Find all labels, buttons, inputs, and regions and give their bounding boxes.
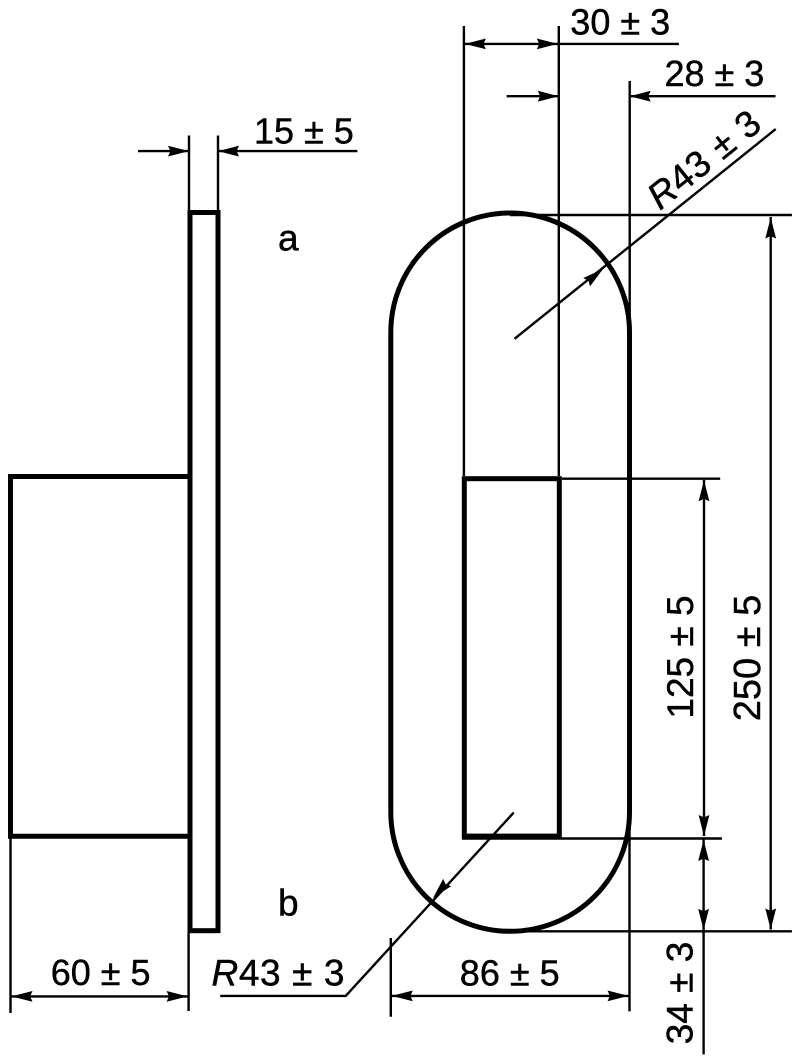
dimension 60±5 extension lines	[11, 838, 189, 1013]
dimension text 125±5 (rotated)	[660, 595, 701, 718]
dimension 86±5 extension lines	[391, 812, 630, 1017]
svg-text:60 ± 5: 60 ± 5	[51, 952, 151, 993]
dimension 15±5 dim line with outside arrows	[138, 150, 357, 152]
dimension 250±5 dim line	[770, 217, 772, 930]
dimension 250±5 extension lines	[510, 215, 792, 931]
dimension 34±3 dim line	[702, 840, 704, 1055]
svg-text:86 ± 5: 86 ± 5	[460, 953, 560, 994]
block (base, side view)	[11, 477, 191, 837]
dimension 28±3 dim line with outside arrows	[507, 95, 776, 97]
svg-text:250 ± 5: 250 ± 5	[727, 595, 769, 722]
dimension text 34±3 (rotated)	[660, 942, 701, 1045]
svg-text:R43 ± 3: R43 ± 3	[212, 953, 346, 994]
dimension 30±3 dim line	[464, 43, 679, 45]
stadium outline	[391, 213, 630, 931]
inner rectangle	[464, 479, 559, 836]
svg-text:b: b	[278, 883, 299, 924]
dimension 30±3 extension lines	[464, 26, 559, 476]
radius leader R43 top	[515, 129, 776, 339]
dimension 28±3 extension line	[629, 81, 631, 330]
dimension text 250±5 (rotated)	[727, 595, 769, 722]
radius leader R43 bottom	[220, 813, 514, 996]
dimension 60±5 dim line	[11, 995, 189, 997]
plate (side view, thin vertical)	[190, 213, 218, 931]
svg-text:34 ± 3: 34 ± 3	[660, 942, 701, 1045]
svg-text:125 ± 5: 125 ± 5	[660, 595, 701, 718]
svg-text:28 ± 3: 28 ± 3	[665, 53, 765, 94]
dimension 15±5 extension lines	[189, 136, 218, 212]
svg-text:a: a	[278, 218, 299, 259]
svg-text:30 ± 3: 30 ± 3	[570, 2, 670, 43]
dimension text R43±3 top (rotated)	[639, 102, 769, 218]
dimension 125±5 dim line	[703, 480, 705, 836]
dimension 86±5 dim line	[391, 995, 630, 997]
dimension 125±5 extension lines	[462, 479, 722, 839]
svg-text:15 ± 5: 15 ± 5	[254, 110, 354, 151]
